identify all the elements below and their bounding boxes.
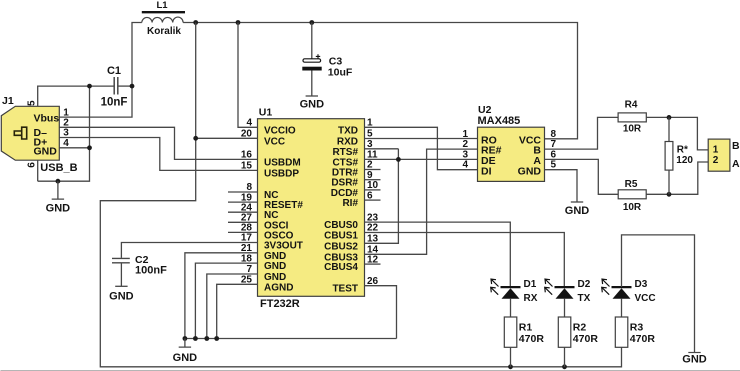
svg-text:6: 6 — [26, 162, 37, 168]
wire C2 bottom stem — [120, 263, 122, 287]
node bottom rail D2 junction — [562, 364, 567, 369]
LED D2 cathode bar — [555, 286, 575, 288]
wire Rstar bottom — [668, 170, 670, 194]
LED D3 triangle — [613, 288, 631, 299]
svg-text:USBDP: USBDP — [264, 168, 299, 179]
U1 pin 9 stub — [365, 179, 381, 181]
svg-text:10R: 10R — [623, 123, 642, 134]
svg-text:470R: 470R — [519, 333, 545, 345]
U1 pin 27 stub — [228, 221, 258, 223]
svg-text:16: 16 — [241, 150, 253, 161]
wire R1 top — [510, 299, 512, 317]
svg-text:B: B — [732, 140, 740, 152]
wire J1 Vbus pin1 up to L1 — [59, 23, 142, 118]
resistor R* termination — [665, 142, 673, 171]
wire R2 top — [564, 299, 566, 317]
svg-text:D2: D2 — [578, 279, 591, 290]
wire GND pin21 — [185, 253, 258, 339]
connector J1 body — [1, 106, 59, 160]
U1 pin 8 stub — [228, 191, 258, 193]
wire C3 stem top — [311, 23, 313, 59]
wire GND pin7 — [207, 274, 258, 339]
resistor R4 — [618, 113, 646, 122]
wire TXD to DI — [365, 127, 478, 169]
svg-text:Koralik: Koralik — [147, 26, 181, 37]
svg-text:2: 2 — [713, 155, 719, 166]
wire R5 to output pin2 — [646, 162, 708, 194]
svg-text:TEST: TEST — [332, 284, 358, 295]
svg-text:R3: R3 — [630, 322, 644, 334]
wire RTS CTS DE net — [365, 149, 478, 244]
wire 3V3OUT to C2 — [121, 243, 257, 258]
svg-text:10nF: 10nF — [101, 97, 128, 109]
node gnd bus 7 — [204, 336, 209, 341]
LED D1 triangle — [502, 288, 520, 299]
wire R2 bottom — [564, 347, 566, 367]
C3 plus sign — [316, 54, 320, 58]
svg-text:RI#: RI# — [342, 198, 358, 209]
wire GND bus horizontal — [185, 338, 397, 340]
usb plug icon — [14, 127, 26, 139]
svg-text:10uF: 10uF — [328, 67, 353, 79]
node R4 Rstar junction — [667, 115, 672, 120]
U1 pin 24 stub — [228, 211, 258, 213]
svg-text:D3: D3 — [635, 279, 648, 290]
wire GND pin18 — [195, 263, 257, 338]
ground under C2 — [109, 286, 134, 302]
svg-text:C1: C1 — [107, 65, 121, 77]
svg-text:GND: GND — [565, 205, 590, 217]
svg-text:FT232R: FT232R — [260, 298, 300, 310]
wire VCC top rail — [183, 23, 577, 139]
U1 pin 28 stub — [228, 231, 258, 233]
node gnd bus 25 — [214, 336, 219, 341]
svg-text:A: A — [732, 158, 740, 170]
svg-text:CBUS1: CBUS1 — [324, 231, 358, 242]
svg-text:VCC: VCC — [264, 136, 285, 147]
IC U2 MAX485 body — [478, 127, 545, 181]
svg-text:U1: U1 — [259, 106, 273, 118]
U1 pin 2 stub — [365, 169, 381, 171]
wire Rstar top — [668, 117, 670, 141]
node bottom rail D1 junction — [508, 364, 513, 369]
inductor L1 core bar — [142, 11, 185, 13]
ground under J1 — [46, 181, 71, 214]
wire CBUS1 to D2 — [365, 233, 565, 287]
svg-text:CBUS0: CBUS0 — [324, 220, 358, 231]
resistor R1 — [504, 317, 517, 347]
ground under U2 — [565, 202, 590, 217]
node R5 Rstar junction — [667, 192, 672, 197]
wire TEST pin26 to GND bus — [365, 286, 397, 339]
wire VCCIO pin4 to rail — [238, 23, 258, 128]
connector output body — [708, 139, 730, 171]
node C1-L1-Vbus junction — [130, 84, 135, 89]
svg-text:R5: R5 — [625, 179, 638, 190]
resistor R3 — [615, 317, 628, 347]
wire AGND pin25 — [217, 284, 258, 338]
wire U2 GND pin5 — [545, 170, 578, 202]
svg-text:10R: 10R — [623, 202, 642, 213]
svg-text:CBUS4: CBUS4 — [324, 262, 358, 273]
svg-text:GND: GND — [34, 145, 58, 157]
LED D2 arrows — [545, 279, 553, 295]
wire R1 bottom — [510, 347, 512, 367]
wire A to R5 — [545, 159, 619, 194]
node rail-VCCIO branch — [236, 20, 241, 25]
capacitor C3 positive plate — [303, 59, 321, 62]
wire VCC pin20 to rail and bottom loop — [100, 23, 621, 367]
LED D3 cathode bar — [612, 286, 632, 288]
svg-text:470R: 470R — [573, 333, 599, 345]
ground under U1 — [173, 339, 198, 365]
svg-text:GND: GND — [300, 98, 325, 110]
page bottom border — [1, 370, 740, 371]
svg-text:AGND: AGND — [264, 282, 293, 293]
svg-text:TX: TX — [578, 293, 591, 304]
wire GND branch vertical x89 — [38, 86, 90, 181]
svg-text:GND: GND — [109, 291, 134, 303]
svg-text:Vbus: Vbus — [34, 113, 60, 125]
svg-text:4: 4 — [462, 160, 468, 171]
svg-text:RTS#: RTS# — [332, 147, 358, 158]
capacitor C1 — [114, 77, 118, 95]
ground under C3 — [300, 96, 325, 110]
resistor R2 — [558, 317, 571, 347]
U1 pin 10 stub — [365, 189, 381, 191]
wire J1 D+ to USBDP — [59, 138, 257, 171]
U1 pin 12 stub — [365, 263, 381, 265]
svg-text:GND: GND — [173, 352, 198, 364]
svg-text:CBUS2: CBUS2 — [324, 241, 358, 252]
svg-text:470R: 470R — [630, 333, 656, 345]
wire C1 right plate to Vbus node — [119, 85, 133, 87]
wire CBUS0 to D1 — [365, 222, 511, 287]
node VCC pin20 junction — [193, 136, 198, 141]
IC U1 FT232R body — [258, 119, 365, 297]
svg-text:GND: GND — [682, 354, 707, 366]
LED D1 arrows — [491, 279, 499, 295]
svg-text:L1: L1 — [156, 0, 168, 11]
svg-text:R*: R* — [677, 145, 688, 156]
svg-text:120: 120 — [676, 155, 693, 166]
svg-text:D1: D1 — [524, 279, 537, 290]
svg-text:R4: R4 — [625, 100, 638, 111]
node RTS-CTS-DE junction — [396, 157, 401, 162]
wire R4 to output pin1 — [646, 117, 708, 149]
svg-text:VCC: VCC — [635, 293, 656, 304]
node rail-C3 branch — [309, 20, 314, 25]
wire R3 top — [621, 299, 623, 317]
wire C3 stem bottom — [311, 71, 313, 97]
svg-text:GND: GND — [264, 261, 286, 272]
wire J1 pin6 down — [37, 160, 39, 181]
capacitor C3 negative plate — [302, 67, 321, 71]
svg-text:J1: J1 — [2, 95, 14, 107]
svg-text:R2: R2 — [573, 322, 587, 334]
svg-text:USB_B: USB_B — [40, 162, 77, 174]
wire J1 D- to USBDM — [59, 127, 257, 159]
resistor R5 — [618, 190, 646, 199]
wire RXD to RO — [365, 138, 478, 140]
node gnd bus 21 — [183, 336, 188, 341]
node rail-left branch — [193, 20, 198, 25]
svg-text:VCCIO: VCCIO — [264, 125, 296, 136]
svg-text:GND: GND — [518, 165, 542, 177]
LED D2 triangle — [556, 288, 574, 299]
U1 pin 19 stub — [228, 201, 258, 203]
svg-text:MAX485: MAX485 — [478, 115, 521, 127]
node J1 ground junction — [56, 179, 61, 184]
wire D3 to right ground — [622, 235, 695, 353]
svg-text:DI: DI — [481, 165, 492, 177]
wire B to R4 — [545, 117, 619, 149]
inductor L1 — [142, 17, 183, 22]
svg-text:RX: RX — [524, 293, 538, 304]
wire J1 GND pin4 — [59, 147, 89, 149]
svg-text:1: 1 — [713, 144, 719, 155]
svg-text:5: 5 — [26, 100, 37, 106]
LED D1 cathode bar — [501, 286, 521, 288]
svg-text:15: 15 — [241, 161, 253, 172]
svg-text:USBDM: USBDM — [264, 157, 301, 168]
svg-text:GND: GND — [46, 203, 71, 215]
svg-text:R1: R1 — [519, 322, 533, 334]
svg-text:100nF: 100nF — [135, 265, 167, 277]
wire RE to CBUS3 — [365, 149, 478, 254]
svg-text:C3: C3 — [329, 56, 343, 68]
U1 pin 6 stub — [365, 199, 381, 201]
svg-text:TXD: TXD — [338, 125, 358, 136]
wire J1 pin5 shield to C1 — [38, 86, 114, 106]
node GND pin4 tee — [87, 145, 92, 150]
ground right bar — [688, 352, 700, 354]
capacitor C2 — [112, 258, 130, 262]
node gnd bus 18 — [193, 336, 198, 341]
node shield-GND junction top — [87, 84, 92, 89]
LED D3 arrows — [602, 279, 610, 295]
